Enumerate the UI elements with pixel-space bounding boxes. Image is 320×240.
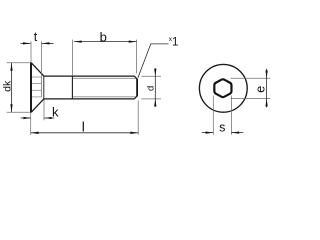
dimension l arrow left <box>31 132 39 134</box>
dimension e line <box>266 69 268 108</box>
dimension b arrow right <box>129 40 137 42</box>
dimension k line right segment <box>44 117 54 119</box>
dimension l extension line left (head face extended down) <box>30 113 32 135</box>
svg-text:b: b <box>100 30 107 45</box>
dimension d line <box>154 68 156 107</box>
dimension k line left segment <box>21 117 31 119</box>
hex socket hidden line 4 <box>32 96 41 98</box>
dimension s arrow right <box>231 131 239 133</box>
svg-text:l: l <box>82 118 85 134</box>
thread start line <box>71 76 73 99</box>
dimension b line <box>74 41 137 43</box>
dimension e extension line top <box>231 77 271 79</box>
leader line to chamfer <box>138 44 169 78</box>
end chamfer bottom <box>134 96 137 99</box>
hex socket hidden line 2 <box>32 83 41 85</box>
hex socket hidden line 1 <box>32 76 41 78</box>
head cone bottom edge <box>31 99 44 112</box>
dimension s line left segment <box>202 132 213 134</box>
dimension s extension line left <box>212 96 214 135</box>
screw head face (flat top of countersunk head) <box>30 62 32 112</box>
dimension l extension line right <box>137 101 139 135</box>
dimension t line left segment <box>21 42 31 44</box>
svg-text:d: d <box>146 86 157 91</box>
dimension dk arrow top <box>10 63 12 71</box>
svg-text:e: e <box>253 86 267 93</box>
dimension dk extension line top <box>7 62 30 64</box>
svg-text:k: k <box>52 104 59 119</box>
dimension d arrow top <box>154 69 156 77</box>
dimension s extension line right <box>230 96 232 135</box>
svg-text:s: s <box>219 120 225 134</box>
screw end face <box>136 79 138 97</box>
dimension d arrow bottom <box>154 99 156 107</box>
dimension t arrow right <box>42 42 50 44</box>
dimension d extension line top <box>141 75 161 77</box>
dimension e arrow top <box>265 70 267 78</box>
dimension t arrow left <box>23 42 31 44</box>
socket bottom vertical / extension line for t <box>40 41 42 97</box>
shank bottom outline <box>44 98 135 100</box>
hex socket (end view) <box>214 79 231 97</box>
thread minor diameter top <box>73 77 136 79</box>
dimension t line right segment <box>42 42 54 44</box>
dimension l line <box>31 132 138 134</box>
svg-text:dk: dk <box>2 80 14 92</box>
dimension e arrow bottom <box>265 99 267 107</box>
dimension l arrow right <box>130 132 138 134</box>
svg-text:t: t <box>34 30 38 44</box>
thread minor diameter bottom <box>73 96 136 98</box>
dimension dk line <box>11 63 13 112</box>
dimension b extension line left <box>71 40 73 76</box>
dimension dk extension line bottom <box>7 111 30 113</box>
dimension b extension line right <box>136 40 138 74</box>
dimension k arrow left <box>23 117 31 119</box>
shank top outline <box>44 75 135 77</box>
dimension d extension line bottom <box>141 98 161 100</box>
head outline circle (end view) <box>199 64 247 112</box>
end chamfer top <box>134 76 137 79</box>
dimension b arrow left <box>74 40 82 42</box>
dimension t extension line left (head face extended up) <box>30 41 32 62</box>
svg-text:1: 1 <box>172 37 178 49</box>
dimension s arrow left <box>206 131 214 133</box>
dimension e extension line bottom <box>231 98 271 100</box>
dimension s line right segment <box>231 132 243 134</box>
head cone top edge <box>31 63 44 76</box>
dimension k arrow right <box>44 117 52 119</box>
dimension dk arrow bottom <box>10 104 12 112</box>
dimension k extension line right (junction extended down) <box>43 100 45 121</box>
head to shank junction line <box>43 76 45 99</box>
hex socket hidden line 3 <box>32 89 41 91</box>
